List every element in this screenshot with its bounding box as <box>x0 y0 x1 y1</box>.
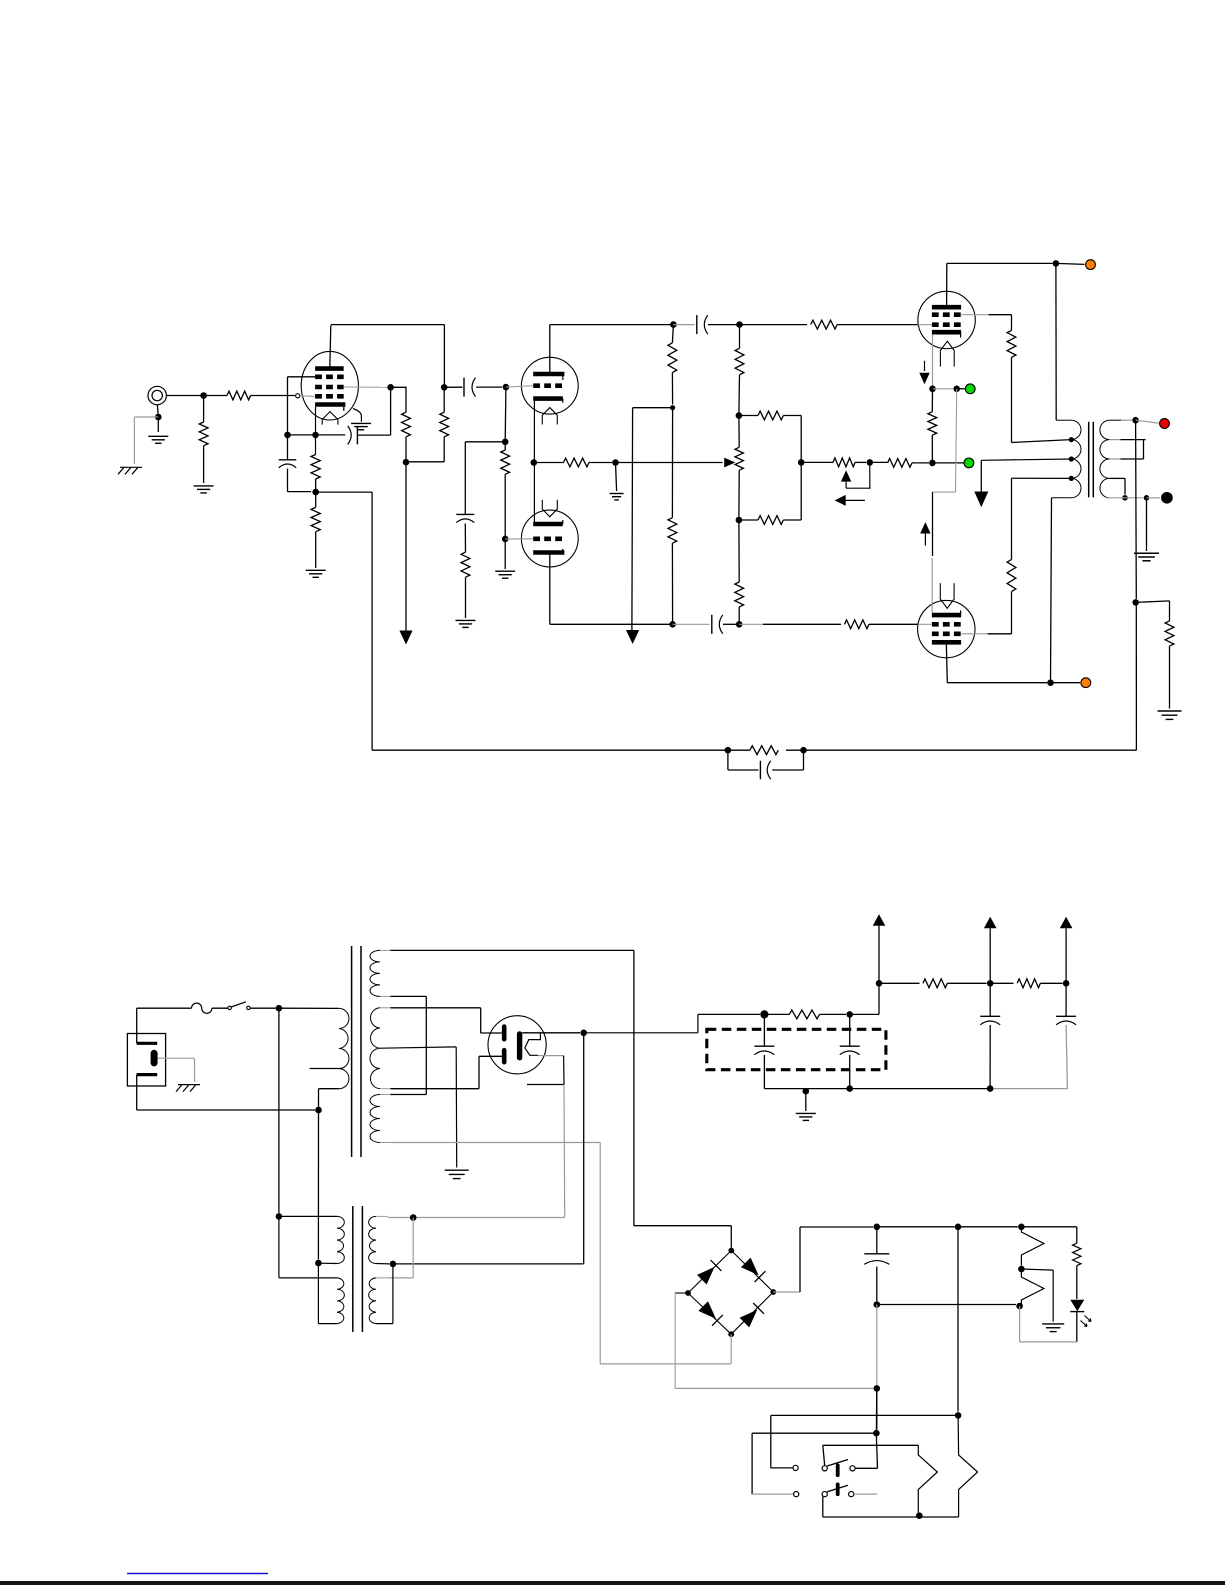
switch SW2 pole2 mid <box>822 1492 827 1497</box>
resistor R29 LED <box>1073 1243 1081 1265</box>
wire C3 down <box>287 469 289 492</box>
wire dc- down <box>876 1388 878 1429</box>
V4 plate <box>932 640 961 645</box>
node switch feed a <box>873 1430 880 1437</box>
node R27 mid <box>1018 1266 1025 1273</box>
capacitor C13 reservoir <box>876 1227 878 1254</box>
node filter mid <box>846 1011 853 1018</box>
capacitor C5 tail <box>456 513 474 515</box>
wire V3 screen <box>961 314 989 316</box>
node bridge mid <box>798 459 805 466</box>
resistor R14 upper bridge <box>739 415 758 417</box>
T2 winding W3 <box>370 1095 380 1143</box>
input jack J1 <box>148 386 166 404</box>
LED D5 <box>1070 1300 1084 1311</box>
wire node down to R2 <box>203 396 205 423</box>
arrow cathode current down <box>924 361 926 371</box>
resistor R20 grid stopper <box>845 620 869 629</box>
node cathode R5 <box>312 489 319 496</box>
node plate row <box>670 321 677 328</box>
arrow B+ rail3 up <box>1060 917 1073 929</box>
AC plug P1 <box>127 1034 165 1087</box>
wire heater riser <box>563 1085 566 1218</box>
wire feedback return <box>316 491 372 493</box>
terminal black <box>1162 493 1173 504</box>
ground R22 <box>1158 710 1182 712</box>
wire lower cathode link <box>956 389 957 492</box>
wire R17 to V3 <box>837 324 918 326</box>
transformer T1 secondary <box>1100 420 1110 498</box>
node switch feed b <box>955 1412 962 1419</box>
T3 core <box>352 1206 354 1332</box>
wire splitter lower row <box>550 623 673 625</box>
wire sec top <box>1121 419 1132 421</box>
arrow pot wiper <box>724 458 735 468</box>
T1 sec tap2 <box>1110 458 1121 460</box>
capacitor C3 cathode bypass <box>279 459 297 461</box>
node grid divider <box>502 439 509 446</box>
V2A cathode <box>533 396 563 401</box>
wire jack sleeve down <box>156 405 159 417</box>
wire mid row green <box>932 462 963 464</box>
V1 cathode lead <box>315 407 317 432</box>
V3 cathode lead <box>932 334 934 385</box>
wire W1 top <box>390 949 634 951</box>
V3 plate <box>932 305 961 310</box>
ground R2 <box>194 485 214 487</box>
wire V4 cathode up <box>932 492 934 556</box>
wire R3 to node <box>405 437 407 462</box>
diode D3 <box>688 1293 731 1334</box>
resistor R22 fb divider <box>1165 621 1174 646</box>
wire W2 bottom to rect <box>390 1088 479 1090</box>
V5 filament <box>525 1033 541 1055</box>
wire V2B cathode up <box>533 463 535 525</box>
node plate rail <box>1053 260 1060 267</box>
wire V2B plate down <box>549 553 551 625</box>
SW2 link bar <box>836 1464 840 1478</box>
terminal orange upper <box>1086 260 1096 270</box>
resistor R23 feedback <box>786 749 804 751</box>
resistor R27 divider upper <box>1021 1227 1044 1266</box>
resistor R15 lower bridge <box>739 519 758 521</box>
resistor R28 divider lower <box>1021 1272 1044 1305</box>
wire rail to OPT <box>1055 263 1057 420</box>
terminal green upper <box>965 384 975 394</box>
V1 grid g3 <box>315 374 344 379</box>
V4 cathode lead <box>931 558 933 613</box>
node V1 plate <box>441 384 448 391</box>
T1 sec tap1 <box>1110 439 1121 441</box>
heater element E2 <box>958 1415 978 1517</box>
wire B+ feed arrow <box>405 462 407 631</box>
wire W3 bottom <box>390 1142 600 1144</box>
node filter in <box>760 1010 768 1018</box>
node sec bottom <box>390 1261 397 1268</box>
node dc minus <box>874 1385 881 1392</box>
switch SW2 pole1 right <box>850 1466 855 1471</box>
T1 sec tap3 <box>1110 477 1125 479</box>
capacitor C9 can A <box>763 1014 765 1046</box>
V3 cathode <box>932 330 961 335</box>
node pot upper <box>736 412 743 419</box>
resistor R21 screen lower <box>1007 559 1016 591</box>
wire bus to lower sec <box>412 1218 414 1278</box>
V1 plate <box>315 366 344 371</box>
switch SW2 pole1 blade <box>827 1460 848 1467</box>
bridge D1 anode node <box>728 1248 734 1254</box>
wire V2A cathode down <box>533 401 535 463</box>
wire B+ elevation row <box>396 1263 584 1265</box>
wire V4 screen <box>961 633 988 635</box>
wire R11 down <box>671 543 673 624</box>
resistor R6 cathode lower <box>315 492 317 507</box>
V1 grid g1 <box>315 394 344 399</box>
wire V5 bottom out <box>538 1055 564 1057</box>
wire mid to ground <box>1021 1269 1053 1270</box>
resistor R4 plate load <box>443 387 445 412</box>
hyperlink underline <box>127 1573 268 1575</box>
wire V3 grid <box>736 324 740 326</box>
wire R18 to tap <box>1011 357 1013 442</box>
node V3 cathode <box>929 386 936 393</box>
transformer T1 primary <box>1056 419 1071 421</box>
node neutral <box>315 1107 322 1114</box>
triode V2A envelope <box>521 357 578 414</box>
diode D2 <box>731 1251 773 1293</box>
wire pole2 common <box>822 1497 824 1517</box>
node feedback tap <box>1132 599 1139 606</box>
pentode V4 envelope <box>918 600 975 657</box>
V1 grid terminal <box>296 394 300 398</box>
wire rail row1 <box>879 982 920 984</box>
wire feedback vertical <box>1135 420 1138 599</box>
node sec bottom b <box>1144 495 1150 501</box>
wire R12 to pot <box>738 375 741 416</box>
wire sec upper bottom <box>376 1263 389 1265</box>
resistor R24 filter <box>764 1013 789 1015</box>
wire R2 to ground <box>203 446 205 483</box>
potentiometer VR1 <box>738 416 740 448</box>
terminal green lower <box>964 458 974 468</box>
node pot top <box>736 321 743 328</box>
node V1 cathode <box>312 432 319 439</box>
chassis ground plug <box>178 1084 200 1086</box>
wire R8 ground <box>465 577 467 618</box>
wire W2 top to rect <box>390 1007 480 1009</box>
wire bridge to rheostat <box>801 461 833 463</box>
node pot bottom row <box>736 621 743 628</box>
node B+ rail 3 <box>1063 980 1070 987</box>
wire R5 to node <box>315 479 317 489</box>
ground V1 cathode <box>306 569 326 571</box>
T2 winding W2 <box>370 1008 380 1089</box>
wire gnd stub <box>805 1091 807 1111</box>
bridge right node <box>770 1289 776 1295</box>
arrow B+ rail1 up <box>873 914 886 926</box>
wire V1 cathode 2nd row <box>287 435 289 460</box>
P1 ground pin <box>151 1050 158 1067</box>
capacitor C12 rail3 <box>1065 983 1067 1016</box>
wire top row right <box>877 1226 955 1228</box>
resistor R8 tail <box>461 552 470 577</box>
wire R22 ground <box>1169 646 1171 708</box>
node R3/R4 <box>403 459 410 466</box>
T1 primary tap screen upper <box>1069 437 1074 442</box>
node jack sleeve <box>155 414 162 421</box>
wire hot up <box>136 1008 138 1043</box>
node lower rail <box>1047 679 1054 686</box>
resistor R17 grid stopper <box>811 320 838 329</box>
wire CT down arrow <box>980 460 982 491</box>
V4 grid g1 <box>932 622 961 627</box>
node T3 primary top <box>276 1213 283 1220</box>
wire heater bus <box>388 1217 565 1219</box>
wire pole1 right <box>855 1467 877 1469</box>
wire V5 top out <box>522 1032 580 1034</box>
capacitor C4 coupling <box>444 386 462 388</box>
switch SW2 pole2 left <box>794 1492 799 1497</box>
P1 hot prong <box>137 1042 158 1045</box>
wire V2A grid <box>506 386 533 387</box>
P1 neutral prong <box>137 1073 158 1076</box>
V1 cathode <box>315 402 345 407</box>
wire V2B grid <box>505 538 533 540</box>
wire hot drop <box>278 1008 280 1213</box>
node pot lower <box>736 517 743 524</box>
ground tail <box>456 619 476 621</box>
resistor R9 tail row <box>534 462 564 464</box>
wire to black terminal <box>1147 497 1161 499</box>
wire row A <box>771 1414 958 1416</box>
node R28 bottom <box>1016 1303 1023 1310</box>
wire row to R27 <box>958 1226 1018 1228</box>
node hot <box>276 1005 283 1012</box>
V1 grid g2 <box>315 385 344 390</box>
transformer T3 secondary upper <box>369 1216 376 1263</box>
wire sec bottom <box>1106 497 1125 499</box>
wire divider drop <box>464 442 466 515</box>
wire filament stub <box>527 1084 564 1086</box>
capacitor C8 feedback <box>727 750 729 770</box>
resistor VR2 rheostat <box>833 458 855 467</box>
resistor R19 bias sense <box>931 389 933 412</box>
V4 grid g2 <box>932 631 961 636</box>
wire to green upper <box>957 388 965 390</box>
wire V1 plate up <box>330 325 331 368</box>
wire R20 to V4 <box>869 623 918 625</box>
wire heater dc drop <box>957 1227 959 1412</box>
wire R6 ground <box>315 532 317 568</box>
switch SW2 pole1 left <box>793 1465 798 1470</box>
wire W2 tap <box>380 1047 456 1048</box>
ground LED divider <box>1042 1323 1064 1325</box>
node T3 return <box>315 1260 322 1267</box>
node heater dc <box>955 1224 962 1231</box>
V2A grid <box>533 383 564 388</box>
node bleeder mid <box>670 405 675 410</box>
diode D1 <box>688 1251 731 1294</box>
wire R7b ground <box>504 539 506 569</box>
wire res bottom down <box>876 1305 878 1386</box>
node sec top <box>1132 417 1139 424</box>
terminal orange lower <box>1081 678 1091 688</box>
node reservoir top <box>874 1224 881 1231</box>
node input <box>200 392 207 399</box>
transformer T3 primary lower <box>337 1278 344 1324</box>
wire LED return <box>1076 1312 1078 1342</box>
wire cathode row gray <box>933 388 953 390</box>
wire sec ground <box>1146 498 1148 551</box>
arrow B+ V1 down <box>399 631 412 645</box>
V5 plate 2 <box>502 1048 507 1065</box>
wire R29 to LED <box>1076 1266 1078 1299</box>
wire V2A plate up <box>549 325 551 374</box>
node V1 screen <box>387 384 394 391</box>
switch SW2 pole1 mid <box>822 1466 827 1471</box>
resistor R18 screen upper <box>1007 330 1016 357</box>
V3 heater <box>940 341 955 351</box>
wire neutral drop <box>317 1110 319 1260</box>
V3 grid g1 <box>932 322 961 327</box>
wire plate line down <box>443 325 445 384</box>
V2B grid <box>533 536 564 541</box>
wire filter bottom row <box>764 1088 990 1090</box>
pentode V3 envelope <box>918 291 975 348</box>
node filter gnd a <box>803 1088 810 1095</box>
V4 cathode <box>932 613 961 618</box>
wire hot to PT <box>279 1007 339 1009</box>
V2B plate <box>533 550 564 555</box>
wire bridge DC+ <box>773 1291 800 1293</box>
bridge left node <box>685 1290 691 1296</box>
node heater bus <box>410 1214 417 1221</box>
node B+ rail 2 <box>987 980 994 987</box>
capacitor C2 cathode-screen <box>316 434 346 436</box>
V5 plate 1 <box>502 1024 507 1041</box>
resistor R11 lower bleeder <box>671 408 673 518</box>
wire tail ground stub <box>616 463 617 492</box>
T1 sec tap bracket <box>1143 440 1145 459</box>
node g3 junction <box>284 432 291 439</box>
capacitor C7 coupling lower <box>673 623 710 625</box>
wire V3 plate up <box>946 263 948 307</box>
wire pole1 common <box>823 1445 825 1465</box>
wire neutral down <box>136 1075 138 1110</box>
wire sec lower bottom <box>392 1264 394 1324</box>
ground HV center tap <box>445 1169 469 1171</box>
node sec bottom a <box>1122 495 1128 501</box>
diode D4 <box>731 1292 773 1334</box>
arrow annotation left <box>835 495 846 506</box>
node reservoir bottom <box>874 1301 881 1308</box>
T1 core <box>1088 422 1090 498</box>
resistor R2 input shunt <box>199 422 208 446</box>
wire bridge DC- <box>675 1292 688 1294</box>
wire B+ to filter <box>584 1032 698 1034</box>
wire grid chain down <box>504 387 507 442</box>
switch SW1 <box>228 1006 231 1009</box>
wire to orange lower <box>1051 682 1081 684</box>
ground tail row <box>610 493 624 495</box>
wire screen down <box>390 387 392 435</box>
node V5 output <box>580 1030 587 1037</box>
switch SW2 pole2 right <box>849 1492 854 1497</box>
wire filter top right <box>850 1013 879 1015</box>
wire res bottom row <box>877 1304 1016 1306</box>
wire jack to node <box>166 395 203 397</box>
wire T3 upper bottom <box>318 1262 337 1264</box>
resistor R7 grid leak <box>504 442 506 450</box>
wire row B <box>752 1432 876 1434</box>
node lower row <box>669 621 676 628</box>
footer bar <box>0 1581 1225 1585</box>
wire fb to stage1 <box>372 749 728 751</box>
wire sleeve to chassis <box>134 416 158 418</box>
V4 heater <box>940 598 955 608</box>
V5 cathode bar <box>517 1031 522 1060</box>
resistor R3 screen feed <box>402 412 411 437</box>
capacitor C10 can B <box>849 1014 851 1046</box>
node filter gnd b <box>846 1085 853 1092</box>
terminal red <box>1160 419 1170 429</box>
wire bleeder jog <box>633 407 673 409</box>
ground jack sleeve <box>148 435 168 437</box>
wire gnd pin <box>158 1057 195 1059</box>
wire tail to pot wiper <box>616 462 723 464</box>
resistor R25 rail <box>923 979 947 988</box>
resistor R5 cathode <box>315 435 317 455</box>
node bottom row <box>916 1512 923 1519</box>
T2 HV winding W1 <box>370 950 380 996</box>
T2 primary tap <box>310 1068 343 1070</box>
wire lower rail to OPT <box>1051 498 1052 683</box>
wire T3 lower bottom <box>317 1263 319 1324</box>
wire B+ down <box>583 1033 585 1264</box>
transformer T3 secondary lower <box>369 1278 376 1324</box>
node mid row <box>929 460 936 467</box>
V2A plate <box>533 372 564 377</box>
fuse F1 <box>192 1003 212 1013</box>
node R27 top <box>1018 1224 1025 1231</box>
node B+ rail 1 <box>876 980 883 987</box>
chassis ground input <box>120 466 142 468</box>
resistor R1 input series <box>204 395 227 397</box>
wire screen jog <box>391 387 406 412</box>
wire PT primary bottom <box>318 1089 320 1110</box>
T2 core <box>351 946 353 1157</box>
arrow B+ rail2 up <box>984 917 997 929</box>
pentode V1 envelope <box>301 351 358 420</box>
bridge bottom node <box>728 1331 734 1337</box>
wire V1 g3 left <box>288 376 316 378</box>
resistor R12 pot upper <box>739 325 741 349</box>
T1 primary center tap <box>1069 456 1074 461</box>
VR2 wiper arrow <box>841 470 851 481</box>
wire divider left <box>465 441 505 443</box>
wire bottom row <box>823 1516 959 1518</box>
resistor R10 upper bleeder <box>672 325 673 343</box>
wire R10 down <box>671 373 673 405</box>
heater element E1 <box>918 1445 937 1512</box>
wire V4 grid <box>736 623 739 625</box>
wire feedback down <box>1135 602 1137 750</box>
triode V2B envelope <box>521 510 578 567</box>
capacitor C6 coupling upper <box>673 324 694 326</box>
LED arrows <box>1085 1316 1092 1322</box>
wire bleeder drop <box>631 408 634 631</box>
ground filter <box>796 1112 816 1114</box>
